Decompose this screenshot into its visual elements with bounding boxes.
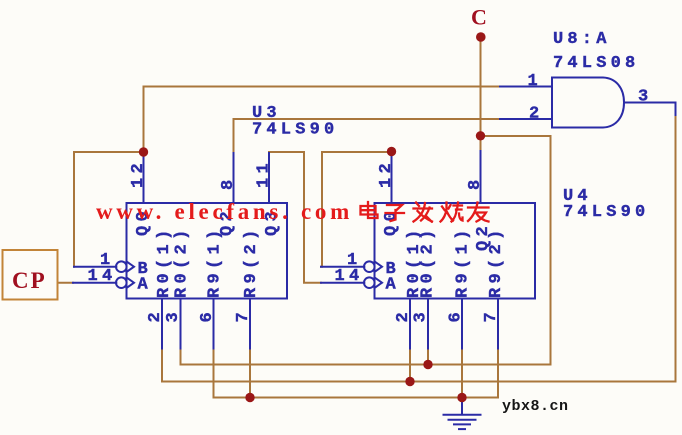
op-amp U8:A AND gate body 74LS08 [552,78,624,128]
IC U3 74LS90 body [127,203,288,299]
watermark CJK 子 [386,205,405,221]
svg-text:2: 2 [529,105,544,124]
svg-text:74LS90: 74LS90 [252,121,338,140]
watermark CJK 电 [361,202,378,218]
junction dot at U3 pin12 / net A [139,147,148,156]
svg-text:R9(2): R9(2) [242,225,261,298]
pin stubs U3 top: 12, 8, 11 [144,152,270,203]
wire: CP to U3 pin A (pin 14) [58,282,117,284]
junction dot U4 pin6 / ground [457,393,466,402]
wire: net C vertical from terminal C down to U4 pin 8 [480,37,482,151]
svg-text:12: 12 [129,159,148,188]
svg-text:3: 3 [164,308,183,323]
svg-text:74LS90: 74LS90 [563,203,649,222]
svg-text:ybx8.cn: ybx8.cn [502,398,569,415]
pin stubs U4 top: 12, 8 [392,151,481,203]
svg-text:74LS08: 74LS08 [553,54,639,73]
junction dot U4 pin3 on reset line [423,360,432,369]
junction dot at U4 pin12 [387,147,396,156]
wire: AND output to R0(1) reset line pins 2 of U3,U4 (y=381) [162,114,676,382]
CP input port box [3,250,58,300]
IC U4 74LS90 body [375,203,536,299]
junction dot U4 pin2 on AND output line [405,377,414,386]
svg-text:8: 8 [466,175,485,190]
svg-text:R0(2): R0(2) [173,225,192,298]
wire: U4 Q0 (pin12) to U4 pin B (1) [321,152,392,267]
wire: U3 Q0 (pin12) to AND pin1, horizontal top [144,86,501,88]
svg-text:6: 6 [198,308,217,323]
svg-text:1: 1 [527,72,542,91]
wire: U3 Q3 (pin11) to U4 pin A (14) [269,152,364,283]
svg-text:A: A [386,276,401,295]
svg-text:C: C [471,5,487,30]
svg-text:U8:A: U8:A [553,30,611,49]
svg-text:8: 8 [219,175,238,190]
junction dot at U4 pin8 / net C [476,131,485,140]
AND gate pin 3 output stub [624,103,676,116]
svg-text:7: 7 [482,308,501,323]
pin stubs U4 bottom: 2,3,6,7 [410,299,498,349]
svg-text:R9(1): R9(1) [206,225,225,298]
svg-text:R9(1): R9(1) [454,225,473,298]
wire: vertical from top wire down to junction at U3 pin12 [143,87,145,153]
ground symbol [444,398,481,430]
wire: junction to left loop toward U3 pin B [74,152,144,267]
svg-text:2: 2 [146,308,165,323]
svg-text:14: 14 [334,267,363,286]
svg-text:A: A [138,276,153,295]
U4 pin B clock symbol (pin 1) [364,261,382,272]
wire: R0(2) reset line pins 3 of U3,U4 (y=364.5) [181,349,551,365]
wire: into U3 pin B (pin 1) [74,266,116,268]
svg-text:12: 12 [377,159,396,188]
svg-text:CP: CP [12,268,47,293]
AND gate pin 2 stub [500,118,552,120]
svg-text:6: 6 [447,308,466,323]
svg-text:2: 2 [394,308,413,323]
wire: ground line pins 6,7 of U3,U4 (y=397.5) [214,349,499,398]
watermark CJK 发 [414,203,433,222]
svg-text:R9(2): R9(2) [487,225,506,298]
pin stubs U3 bottom: 2,3,6,7 [162,299,250,349]
U3 pin A clock symbol (pin 14) [116,277,134,288]
U3 pin B clock symbol (pin 1) [116,261,134,272]
watermark CJK 烧 [441,203,463,222]
svg-text:3: 3 [412,308,431,323]
svg-text:11: 11 [255,159,274,188]
junction dot U3 pin7 on ground line [245,393,254,402]
watermark CJK 友 [468,203,489,222]
AND gate pin 1 stub [500,86,552,88]
svg-text:R0(1): R0(1) [155,225,174,298]
U4 pin A clock symbol (pin 14) [364,277,382,288]
svg-text:R0(2): R0(2) [419,225,438,298]
node C terminal dot [476,32,486,42]
svg-text:7: 7 [234,308,253,323]
svg-text:3: 3 [638,88,653,107]
svg-text:14: 14 [87,267,116,286]
wire: U3 Q2 (pin8) to AND pin2 [234,119,501,153]
svg-text:www. elecfans. com: www. elecfans. com [96,199,353,224]
wire: C net to R0(2) line, right side loop [481,136,551,365]
